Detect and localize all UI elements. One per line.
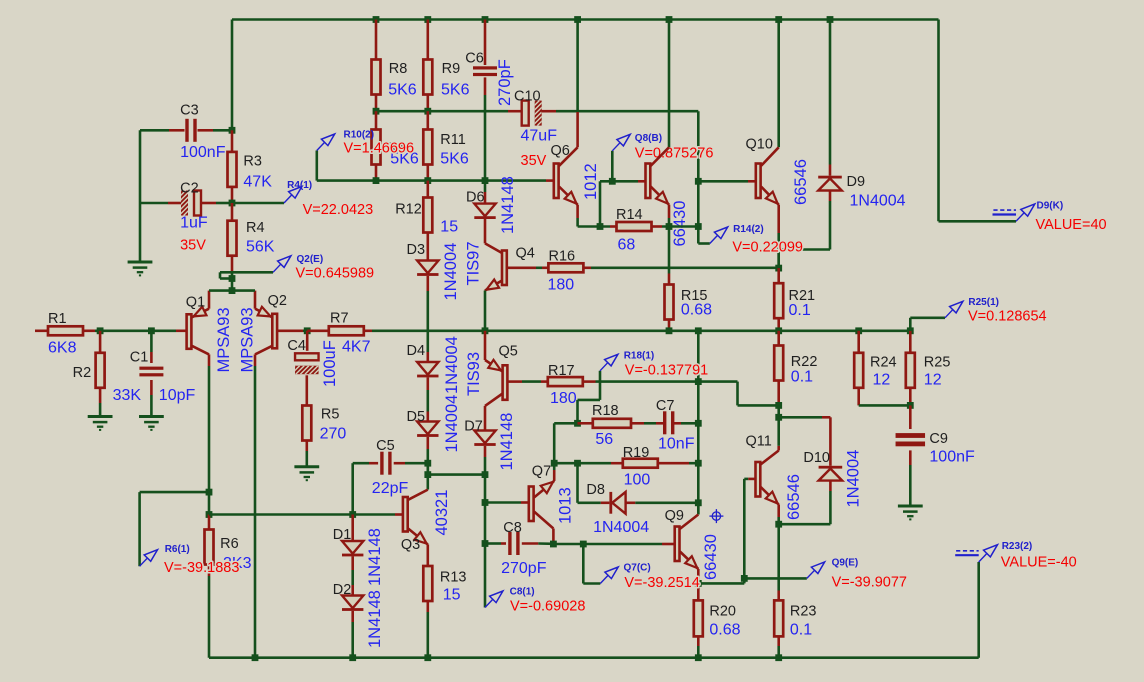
- wire Q11 base riser: [744, 479, 748, 579]
- junction C1 node: [148, 327, 155, 334]
- svg-text:Q2: Q2: [268, 293, 287, 309]
- svg-text:V=0.645989: V=0.645989: [296, 266, 375, 282]
- junction D10 top node: [775, 414, 782, 421]
- svg-text:MPSA93: MPSA93: [215, 307, 233, 372]
- svg-text:Q1: Q1: [186, 295, 205, 311]
- capacitor C2 electrolytic: [140, 181, 236, 254]
- svg-text:R2: R2: [73, 365, 92, 381]
- svg-text:R6(1): R6(1): [165, 544, 190, 555]
- svg-text:TIS93: TIS93: [465, 352, 483, 396]
- svg-text:C8(1): C8(1): [510, 587, 535, 598]
- svg-text:12: 12: [873, 372, 891, 389]
- probe R10(2): [317, 130, 414, 181]
- svg-text:R23: R23: [790, 604, 817, 620]
- transistor Q11 66546: [746, 434, 804, 521]
- svg-text:Q9: Q9: [665, 508, 684, 524]
- diode D1 1N4148: [333, 515, 364, 586]
- resistor R12: [395, 181, 458, 261]
- junction R6(1) probe node: [206, 489, 213, 496]
- resistor R4: [228, 203, 275, 272]
- svg-text:C4: C4: [287, 338, 306, 354]
- resistor R22: [774, 331, 817, 406]
- svg-text:R6: R6: [220, 536, 239, 552]
- svg-text:C3: C3: [180, 103, 199, 119]
- junction Q3 base node: [206, 511, 213, 518]
- junction R17 net / C7 column: [695, 378, 702, 385]
- svg-text:12: 12: [924, 372, 942, 389]
- ground R5: [294, 467, 319, 480]
- diode D8 1N4004: [578, 463, 699, 536]
- probe R25(1): [910, 297, 1046, 331]
- svg-text:C8: C8: [503, 520, 522, 536]
- transistor Q5 TIS93: [465, 331, 548, 406]
- junction Q7 collector / C8 node: [550, 541, 557, 548]
- wire R18 jog from R17 node: [578, 382, 601, 424]
- svg-text:Q8(B): Q8(B): [635, 133, 662, 144]
- junction D7 bottom node: [482, 471, 489, 478]
- junction Q11 base node: [741, 575, 748, 582]
- wire input node to Q1 base: [95, 329, 187, 332]
- svg-text:100: 100: [624, 472, 651, 489]
- svg-text:D9(K): D9(K): [1037, 201, 1064, 212]
- probe R18(1): [596, 351, 738, 382]
- transistor Q10: [698, 20, 810, 269]
- capacitor C5: [353, 438, 428, 515]
- svg-text:Q9(E): Q9(E): [832, 558, 859, 569]
- probe R4(1): [232, 180, 373, 218]
- wire emitter rail Q1-Q2: [209, 289, 255, 292]
- svg-text:66430: 66430: [671, 201, 689, 247]
- junction R16 net / R21 / Q10 emitter: [775, 265, 782, 272]
- label probe Q7(C) value: [624, 575, 699, 591]
- svg-text:1N4148: 1N4148: [366, 590, 384, 648]
- junction top rail nodes: [373, 16, 834, 23]
- resistor R2: [73, 331, 142, 416]
- wire R18-left down-jog net: [554, 423, 577, 463]
- svg-text:V=-39.1883: V=-39.1883: [164, 560, 239, 576]
- svg-text:Q10: Q10: [746, 137, 773, 153]
- svg-text:100uF: 100uF: [321, 340, 339, 387]
- svg-text:10nF: 10nF: [658, 435, 695, 452]
- wire Q1 collector drop: [208, 366, 211, 492]
- svg-text:R20: R20: [709, 604, 736, 620]
- svg-text:R11: R11: [440, 132, 466, 148]
- svg-text:D3: D3: [407, 242, 426, 258]
- junction D8 cathode drop node: [574, 460, 581, 467]
- svg-text:D7: D7: [464, 419, 483, 435]
- ground R2: [88, 417, 113, 430]
- capacitor C9: [896, 405, 975, 505]
- svg-text:D10: D10: [803, 450, 830, 466]
- resistor R3: [228, 130, 273, 203]
- probe R14(2): [698, 224, 763, 244]
- svg-text:C2: C2: [180, 181, 199, 197]
- svg-text:1012: 1012: [582, 163, 600, 200]
- wire D3 to main bus crossing: [426, 291, 429, 352]
- svg-text:R14(2): R14(2): [733, 224, 764, 235]
- svg-text:1N4148: 1N4148: [498, 413, 516, 471]
- wire Q3 base wire: [209, 513, 403, 516]
- svg-text:V=0.128654: V=0.128654: [968, 309, 1047, 325]
- svg-text:TIS97: TIS97: [465, 241, 483, 285]
- svg-text:V=22.0423: V=22.0423: [303, 202, 374, 218]
- svg-text:D8: D8: [586, 482, 605, 498]
- svg-text:5K6: 5K6: [440, 151, 469, 168]
- svg-text:V=-39.9077: V=-39.9077: [832, 575, 907, 591]
- svg-text:1N4004: 1N4004: [593, 519, 649, 536]
- wire Q2 base to R7 node: [303, 329, 307, 332]
- junction Q7 base node: [482, 499, 489, 506]
- resistor R1: [35, 311, 95, 357]
- svg-text:1N4004: 1N4004: [850, 193, 906, 210]
- svg-text:VALUE=-40: VALUE=-40: [1001, 555, 1077, 571]
- wire +40V top rail: [232, 18, 939, 21]
- wire left vertical C3-C2-ground: [139, 130, 142, 261]
- junction C3/R3 node: [229, 127, 236, 134]
- wire R22/Q11/D10 link: [777, 405, 780, 445]
- ground C1: [139, 417, 164, 430]
- svg-text:C10: C10: [514, 89, 541, 105]
- wire R4 to emitter rail: [231, 272, 234, 291]
- svg-text:R18(1): R18(1): [624, 351, 655, 362]
- resistor R18: [578, 403, 645, 448]
- svg-text:47uF: 47uF: [521, 128, 558, 145]
- wire D5-D7 link: [428, 473, 485, 476]
- svg-text:Q4: Q4: [516, 246, 535, 262]
- svg-text:MPSA93: MPSA93: [239, 307, 257, 372]
- junction bus A nodes: [373, 108, 432, 115]
- svg-text:V=-0.69028: V=-0.69028: [510, 599, 585, 615]
- svg-text:1013: 1013: [557, 487, 575, 524]
- junction Q11 emitter / D10 anode node: [775, 521, 782, 528]
- junction D8 anode node: [695, 499, 702, 506]
- svg-text:R19: R19: [623, 445, 650, 461]
- svg-text:R24: R24: [870, 355, 897, 371]
- resistor R14: [578, 207, 699, 254]
- label 1N4148 D1: [366, 528, 384, 586]
- svg-text:66430: 66430: [702, 534, 720, 580]
- svg-text:V=-39.2514: V=-39.2514: [624, 575, 699, 591]
- svg-text:V=-0.137791: V=-0.137791: [625, 363, 708, 379]
- svg-text:D1: D1: [333, 527, 352, 543]
- probe Q8(B): [612, 133, 713, 181]
- svg-text:D5: D5: [407, 409, 426, 425]
- junction Q7 emitter node: [551, 460, 558, 467]
- transistor Q8: [646, 20, 690, 247]
- svg-text:6K8: 6K8: [48, 340, 77, 357]
- svg-text:Q7(C): Q7(C): [624, 563, 651, 574]
- svg-text:V=0.875276: V=0.875276: [635, 146, 714, 162]
- svg-text:R5: R5: [321, 407, 340, 423]
- wire main output bus: [372, 329, 910, 332]
- transistor Q1 MPSA93: [186, 291, 209, 366]
- svg-text:R16: R16: [549, 249, 576, 265]
- svg-text:270pF: 270pF: [496, 59, 514, 106]
- diode D3 1N4004: [407, 242, 461, 301]
- wire C10 net corner down to Q10 base: [697, 111, 700, 181]
- svg-text:D6: D6: [466, 190, 485, 206]
- svg-text:C9: C9: [929, 431, 948, 447]
- capacitor C6: [465, 20, 514, 181]
- probe Q7(C): [583, 544, 650, 584]
- junction R14 net / Q10 base drop: [695, 223, 702, 230]
- svg-text:D9: D9: [847, 174, 866, 190]
- diode D2 1N4148: [333, 582, 364, 658]
- svg-text:22pF: 22pF: [372, 480, 409, 497]
- transistor Q9 66430: [665, 503, 720, 596]
- svg-text:1N4004: 1N4004: [442, 243, 460, 301]
- wire bus B: [317, 179, 554, 182]
- wire Q9 emitter to Q11 base jog: [698, 578, 744, 583]
- svg-text:270pF: 270pF: [501, 560, 547, 577]
- label V=-39.1883 probe R6(1) value: [164, 560, 239, 576]
- svg-text:180: 180: [548, 276, 575, 293]
- resistor R16: [510, 249, 779, 294]
- power terminal R23(2) VALUE=-40: [955, 541, 1077, 571]
- svg-text:Q5: Q5: [499, 344, 518, 360]
- svg-text:56K: 56K: [246, 239, 275, 256]
- svg-text:C1: C1: [130, 350, 149, 366]
- svg-text:C7: C7: [656, 398, 675, 414]
- junction R14 left / Q6 emitter: [597, 223, 604, 230]
- wire top rail right drop to +40 terminal: [939, 20, 1017, 222]
- capacitor C10 electrolytic: [508, 89, 698, 170]
- svg-text:100nF: 100nF: [180, 144, 226, 161]
- resistor R5: [302, 406, 346, 467]
- svg-text:R4(1): R4(1): [287, 180, 312, 191]
- wire bottom rail riser to -40 terminal: [977, 562, 980, 658]
- svg-text:33K: 33K: [113, 387, 142, 404]
- resistor R21: [774, 268, 815, 331]
- svg-text:66546: 66546: [792, 159, 810, 205]
- ground C9: [898, 506, 923, 519]
- svg-text:V=1.46696: V=1.46696: [344, 141, 415, 157]
- svg-text:180: 180: [550, 390, 577, 407]
- svg-text:0.68: 0.68: [681, 302, 712, 319]
- resistor R10: [372, 111, 419, 180]
- svg-text:R18: R18: [592, 403, 619, 419]
- junction bus B nodes: [373, 177, 489, 184]
- svg-text:1uF: 1uF: [180, 215, 208, 232]
- diode D10 1N4004: [779, 417, 863, 524]
- junction R19 right node: [695, 460, 702, 467]
- wire Q2 collector drop: [254, 366, 257, 658]
- wire Q7 emitter node to R19: [554, 462, 611, 465]
- capacitor C1: [130, 331, 196, 416]
- junction Q7(C) probe drop node: [580, 541, 587, 548]
- svg-text:R25(1): R25(1): [968, 297, 999, 308]
- svg-text:10pF: 10pF: [159, 387, 196, 404]
- resistor R20: [694, 596, 741, 658]
- ground left input filter: [128, 262, 153, 275]
- junction Q10 base node: [695, 178, 702, 185]
- svg-text:68: 68: [618, 237, 636, 254]
- junction R25 bottom node: [907, 402, 914, 409]
- svg-text:R25: R25: [924, 355, 951, 371]
- wire R6 node link: [208, 492, 211, 514]
- svg-text:15: 15: [440, 218, 458, 235]
- svg-text:R10(2): R10(2): [344, 130, 375, 141]
- svg-text:56: 56: [595, 431, 613, 448]
- label probe R18(1) value: [625, 363, 708, 379]
- svg-text:R8: R8: [389, 61, 408, 77]
- svg-text:R1: R1: [48, 311, 67, 327]
- capacitor C3: [140, 103, 232, 162]
- resistor R7: [307, 311, 372, 356]
- wire D7 node down to Q7 base: [484, 475, 487, 544]
- resistor R9: [423, 20, 469, 112]
- resistor R6: [205, 515, 252, 658]
- svg-text:D2: D2: [333, 582, 352, 598]
- svg-text:R23(2): R23(2): [1002, 541, 1033, 552]
- wire R24-R25 bottom link: [859, 404, 911, 407]
- wire R17 net jog to R22: [738, 382, 779, 406]
- junction C5 right node: [424, 460, 431, 467]
- svg-text:0.68: 0.68: [709, 622, 740, 639]
- svg-text:35V: 35V: [521, 153, 547, 169]
- svg-text:C6: C6: [465, 51, 484, 67]
- svg-text:15: 15: [443, 587, 461, 604]
- svg-text:R17: R17: [548, 363, 575, 379]
- resistor R25: [906, 331, 951, 406]
- svg-text:V=0.22099: V=0.22099: [732, 240, 803, 256]
- junction Q2 base / R7 / C4 node: [304, 327, 311, 334]
- junction C7 right node: [695, 420, 702, 427]
- junction main bus nodes: [482, 327, 914, 334]
- svg-text:Q7: Q7: [532, 464, 551, 480]
- junction D5 bottom wire node: [424, 471, 431, 478]
- svg-text:47K: 47K: [243, 174, 272, 191]
- origin marker: [709, 509, 723, 523]
- capacitor C4 electrolytic: [287, 331, 339, 406]
- svg-text:R13: R13: [440, 570, 467, 586]
- svg-text:270: 270: [320, 426, 347, 443]
- diode D9 1N4004: [779, 20, 906, 269]
- junction R22 bottom node: [775, 402, 782, 409]
- svg-text:Q11: Q11: [746, 434, 772, 450]
- svg-text:D4: D4: [407, 343, 426, 359]
- resistor R15: [665, 227, 713, 331]
- junction bottom rail nodes: [252, 654, 783, 661]
- resistor R11: [423, 111, 469, 180]
- junction emitter rail / R4: [229, 287, 236, 294]
- wire Q11 emitter down to R23: [777, 517, 780, 591]
- svg-text:1N4004: 1N4004: [443, 395, 461, 453]
- diode D4 1N4004: [407, 336, 462, 411]
- label probe R14(2) value: [732, 240, 803, 256]
- svg-text:VALUE=40: VALUE=40: [1036, 217, 1107, 233]
- probe R6(1): [140, 492, 209, 566]
- svg-text:R12: R12: [395, 202, 422, 218]
- resistor R24: [854, 331, 896, 406]
- wire Q8 base net: [600, 181, 646, 226]
- svg-text:40321: 40321: [433, 490, 451, 536]
- capacitor C8: [485, 520, 553, 577]
- wire -40V bottom rail: [209, 656, 979, 659]
- svg-text:1N4148: 1N4148: [499, 176, 517, 234]
- svg-text:Q6: Q6: [551, 143, 570, 159]
- probe Q2(E): [220, 254, 374, 282]
- junction C8 left node: [482, 540, 489, 547]
- transistor Q3 40321: [401, 463, 451, 566]
- junction R1/R2 node: [97, 327, 104, 334]
- svg-text:R4: R4: [246, 220, 265, 236]
- svg-text:Q3: Q3: [401, 537, 420, 553]
- resistor R17: [548, 363, 596, 407]
- wire C7-R19-D8 vertical: [697, 331, 700, 515]
- svg-text:R7: R7: [330, 311, 349, 327]
- label MPSA93 Q2: [239, 307, 257, 372]
- svg-text:R14: R14: [616, 207, 643, 223]
- wire Q9 base net: [553, 543, 674, 546]
- junction Q8 base probe node: [609, 178, 616, 185]
- svg-text:4K7: 4K7: [342, 339, 371, 356]
- svg-text:35V: 35V: [180, 238, 206, 254]
- power terminal D9(K) VALUE=40: [993, 201, 1107, 234]
- svg-text:1N4004: 1N4004: [845, 450, 863, 508]
- probe C8(1): [485, 544, 585, 615]
- svg-text:66546: 66546: [785, 474, 803, 520]
- svg-text:1N4004: 1N4004: [443, 336, 461, 394]
- label 1N4148 D2: [366, 590, 384, 648]
- transistor Q7: [485, 463, 575, 544]
- label MPSA93 Q1: [215, 307, 233, 372]
- probe Q9(E): [744, 558, 907, 591]
- svg-text:R9: R9: [442, 61, 461, 77]
- transistor Q2 MPSA93: [255, 291, 303, 366]
- junction D1 top node: [349, 511, 356, 518]
- svg-text:R3: R3: [243, 154, 262, 170]
- junction R14 right / Q8 emitter: [666, 223, 673, 230]
- wire Q10 base vertical link: [697, 181, 700, 226]
- junction Q9 emitter node (under text): [695, 580, 702, 587]
- svg-text:0.1: 0.1: [790, 622, 812, 639]
- junction C2/R4 node: [229, 200, 236, 207]
- svg-text:0.1: 0.1: [789, 302, 811, 319]
- transistor Q4 TIS97: [465, 241, 535, 330]
- svg-text:C5: C5: [376, 438, 395, 454]
- resistor R23: [774, 591, 816, 658]
- svg-text:1N4148: 1N4148: [366, 528, 384, 586]
- svg-text:100nF: 100nF: [929, 449, 975, 466]
- svg-text:0.1: 0.1: [791, 369, 813, 386]
- diode D6 1N4148: [466, 176, 517, 243]
- junction R18 left node: [574, 420, 581, 427]
- diode D5 1N4004: [407, 395, 462, 475]
- wire top-left drop to C3 node: [231, 20, 234, 131]
- wire bus A R8-R9-C10: [376, 110, 508, 113]
- transistor Q6: [551, 20, 601, 227]
- resistor R19: [611, 445, 698, 489]
- capacitor C7: [644, 398, 698, 452]
- resistor R13: [423, 566, 466, 658]
- diode D7 1N4148: [464, 406, 516, 475]
- resistor R8: [372, 20, 417, 112]
- svg-text:5K6: 5K6: [441, 82, 470, 99]
- svg-text:Q2(E): Q2(E): [297, 254, 324, 265]
- svg-text:5K6: 5K6: [388, 82, 417, 99]
